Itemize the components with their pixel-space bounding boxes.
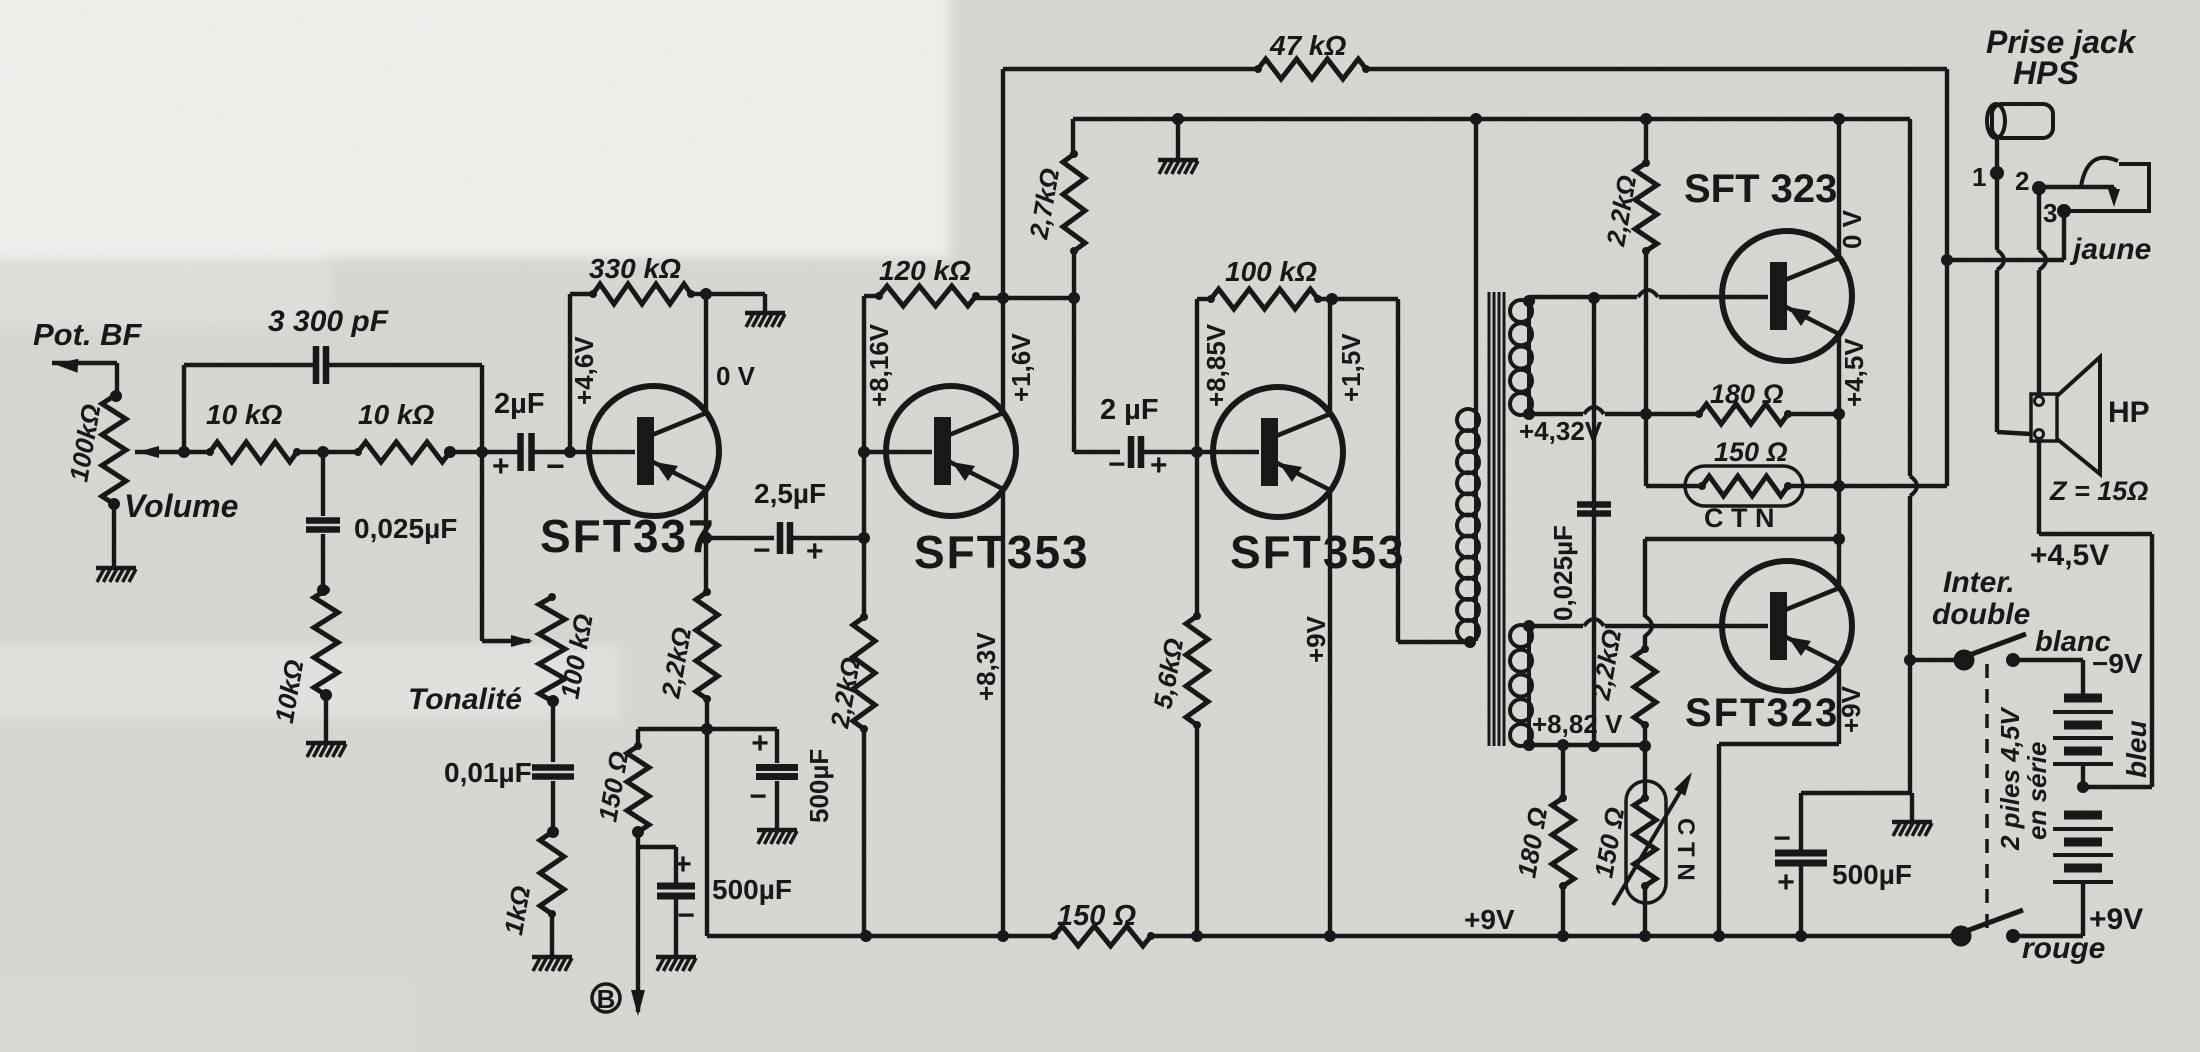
svg-text:+8,3V: +8,3V xyxy=(971,632,1001,701)
svg-text:+4,5V: +4,5V xyxy=(1839,338,1869,407)
svg-text:2: 2 xyxy=(2015,166,2029,196)
svg-text:+: + xyxy=(674,848,692,881)
svg-text:+4,32V: +4,32V xyxy=(1519,416,1603,446)
svg-text:3: 3 xyxy=(2043,198,2057,228)
svg-text:SFT353: SFT353 xyxy=(914,526,1090,578)
svg-text:−: − xyxy=(677,899,695,932)
svg-text:bleu: bleu xyxy=(2121,720,2152,778)
svg-text:+1,6V: +1,6V xyxy=(1006,333,1036,402)
svg-text:en série: en série xyxy=(2022,742,2052,840)
svg-text:+4,5V: +4,5V xyxy=(2030,539,2109,572)
svg-text:120 kΩ: 120 kΩ xyxy=(879,255,971,286)
svg-text:jaune: jaune xyxy=(2069,233,2151,266)
svg-text:SFT 323: SFT 323 xyxy=(1684,167,1837,211)
svg-text:SFT353: SFT353 xyxy=(1230,526,1406,578)
svg-text:+: + xyxy=(492,450,510,483)
svg-text:SFT323: SFT323 xyxy=(1685,691,1839,735)
svg-text:−: − xyxy=(546,448,565,484)
svg-text:10 kΩ: 10 kΩ xyxy=(206,399,282,430)
svg-text:−: − xyxy=(1773,822,1791,855)
svg-text:−: − xyxy=(1108,448,1126,481)
svg-text:500µF: 500µF xyxy=(1832,859,1912,890)
svg-text:+: + xyxy=(1150,449,1168,482)
svg-text:rouge: rouge xyxy=(2022,932,2105,965)
svg-text:2,5µF: 2,5µF xyxy=(754,478,826,509)
svg-text:+8,82 V: +8,82 V xyxy=(1532,709,1623,739)
svg-text:3 300 pF: 3 300 pF xyxy=(268,305,389,338)
svg-text:2 µF: 2 µF xyxy=(1100,394,1159,426)
svg-text:+: + xyxy=(751,727,769,760)
svg-text:+8,85V: +8,85V xyxy=(1201,323,1231,407)
svg-text:Inter.: Inter. xyxy=(1943,566,2015,599)
svg-text:180 Ω: 180 Ω xyxy=(1710,379,1784,409)
svg-text:2 piles 4,5V: 2 piles 4,5V xyxy=(1995,706,2025,851)
svg-text:+9V: +9V xyxy=(1301,615,1331,663)
svg-text:+8,16V: +8,16V xyxy=(864,323,894,407)
svg-text:0,025µF: 0,025µF xyxy=(1548,525,1578,621)
svg-text:−: − xyxy=(749,780,767,813)
svg-text:+4,6V: +4,6V xyxy=(569,336,599,405)
svg-text:0 V: 0 V xyxy=(716,361,756,391)
svg-text:+: + xyxy=(806,535,824,568)
svg-text:+9V: +9V xyxy=(1464,904,1515,935)
svg-text:Tonalité: Tonalité xyxy=(408,683,522,716)
svg-text:100 kΩ: 100 kΩ xyxy=(1225,256,1317,287)
svg-text:0 V: 0 V xyxy=(1837,209,1867,249)
svg-text:C T N: C T N xyxy=(1704,503,1775,533)
svg-text:SFT337: SFT337 xyxy=(540,510,716,562)
svg-text:330 kΩ: 330 kΩ xyxy=(589,253,681,284)
svg-text:C T N: C T N xyxy=(1672,818,1699,881)
svg-text:150 Ω: 150 Ω xyxy=(1714,437,1788,467)
svg-text:B: B xyxy=(597,984,616,1014)
svg-text:500µF: 500µF xyxy=(804,749,834,823)
svg-text:0,025µF: 0,025µF xyxy=(354,513,457,544)
svg-text:−: − xyxy=(753,534,771,567)
svg-text:+: + xyxy=(1777,866,1795,899)
svg-text:0,01µF: 0,01µF xyxy=(444,757,532,788)
svg-text:HP: HP xyxy=(2108,396,2150,429)
svg-text:Z = 15Ω: Z = 15Ω xyxy=(2049,476,2148,506)
svg-text:+1,5V: +1,5V xyxy=(1336,333,1366,402)
svg-text:500µF: 500µF xyxy=(712,874,792,905)
svg-text:+9V: +9V xyxy=(1836,685,1866,733)
svg-text:−9V: −9V xyxy=(2092,648,2143,679)
svg-text:150 Ω: 150 Ω xyxy=(1057,900,1136,932)
svg-text:Volume: Volume xyxy=(124,488,238,524)
svg-text:10 kΩ: 10 kΩ xyxy=(358,399,434,430)
svg-text:1: 1 xyxy=(1972,162,1986,192)
svg-text:Pot. BF: Pot. BF xyxy=(33,317,143,352)
svg-text:double: double xyxy=(1932,598,2030,631)
svg-text:47 kΩ: 47 kΩ xyxy=(1269,30,1346,61)
svg-text:HPS: HPS xyxy=(2013,55,2079,91)
svg-text:2µF: 2µF xyxy=(494,388,545,420)
